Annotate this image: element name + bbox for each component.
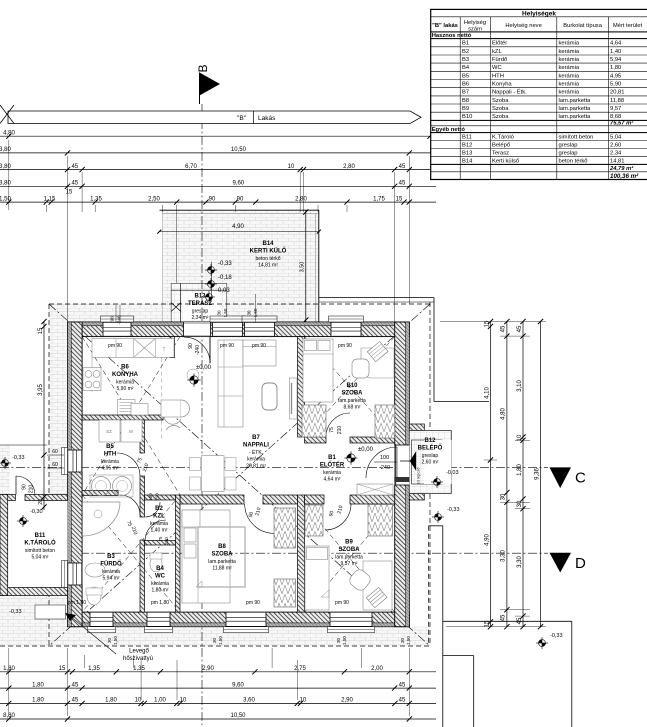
svg-text:B10: B10	[462, 114, 472, 120]
svg-text:45: 45	[399, 698, 406, 704]
svg-text:Szoba: Szoba	[492, 106, 509, 112]
svg-text:greslap: greslap	[559, 143, 578, 149]
svg-text:10: 10	[180, 698, 187, 704]
svg-text:simított beton: simított beton	[559, 135, 594, 141]
svg-text:K.TÁROLÓ: K.TÁROLÓ	[24, 539, 56, 547]
svg-text:30: 30	[247, 310, 252, 316]
svg-text:B9: B9	[345, 540, 353, 546]
svg-text:30: 30	[517, 500, 523, 507]
svg-text:kerámia: kerámia	[559, 41, 580, 47]
svg-text:Belépő: Belépő	[492, 143, 510, 149]
svg-text:10,50: 10,50	[230, 713, 246, 719]
svg-text:4,90: 4,90	[484, 534, 490, 546]
svg-text:hőszivattyú: hőszivattyú	[123, 656, 153, 662]
svg-text:3,30: 3,30	[517, 556, 523, 568]
svg-text:1,35: 1,35	[133, 666, 145, 672]
svg-text:WC: WC	[155, 574, 166, 580]
svg-text:Egyéb nettó: Egyéb nettó	[432, 127, 466, 133]
svg-text:45: 45	[399, 682, 406, 688]
svg-text:NAPPALI: NAPPALI	[243, 443, 269, 449]
svg-text:kerámia: kerámia	[150, 521, 168, 527]
svg-text:90: 90	[110, 316, 115, 322]
svg-text:5,94: 5,94	[610, 57, 622, 63]
svg-text:SZOBA: SZOBA	[339, 547, 361, 553]
svg-text:Levegő: Levegő	[129, 649, 149, 655]
svg-text:lam.parketta: lam.parketta	[559, 98, 592, 104]
svg-text:2,50: 2,50	[148, 196, 160, 202]
svg-text:Előtér: Előtér	[492, 41, 507, 47]
svg-text:3,60: 3,60	[243, 698, 255, 704]
svg-text:kerámia: kerámia	[559, 65, 580, 71]
svg-text:4,95 m²: 4,95 m²	[102, 466, 119, 472]
svg-text:±0,00: ±0,00	[196, 365, 212, 371]
svg-text:45: 45	[517, 617, 523, 624]
svg-text:Lakás: Lakás	[258, 115, 276, 122]
svg-text:8,80: 8,80	[3, 713, 15, 719]
svg-text:90: 90	[22, 484, 28, 490]
svg-text:3,80: 3,80	[0, 181, 11, 187]
svg-text:±0,00: ±0,00	[358, 447, 374, 453]
svg-text:1,50: 1,50	[406, 636, 411, 645]
svg-text:45: 45	[399, 181, 406, 187]
svg-text:9,57 m²: 9,57 m²	[341, 561, 358, 567]
svg-text:2,34: 2,34	[610, 150, 622, 156]
svg-text:45: 45	[71, 181, 78, 187]
svg-text:FÜRDŐ: FÜRDŐ	[100, 561, 122, 568]
svg-text:30: 30	[217, 310, 222, 316]
svg-text:B13: B13	[462, 150, 472, 156]
svg-text:-0,33: -0,33	[550, 633, 563, 639]
svg-text:4,80: 4,80	[3, 130, 15, 136]
svg-text:4,80: 4,80	[501, 408, 507, 420]
svg-text:B7: B7	[252, 435, 260, 441]
svg-text:75,57 m²: 75,57 m²	[610, 120, 634, 127]
svg-text:1,80: 1,80	[32, 698, 44, 704]
svg-text:Mért terület: Mért terület	[613, 23, 643, 29]
svg-text:SZOBA: SZOBA	[212, 552, 234, 558]
svg-text:-0,33: -0,33	[12, 455, 25, 461]
svg-text:1,50: 1,50	[223, 308, 228, 317]
svg-text:100: 100	[380, 455, 389, 461]
svg-text:szám: szám	[468, 27, 482, 33]
svg-text:90: 90	[209, 196, 216, 202]
svg-text:2,80: 2,80	[295, 196, 307, 202]
svg-text:lam.parketta: lam.parketta	[208, 559, 236, 565]
svg-text:1,40 m²: 1,40 m²	[151, 528, 168, 534]
svg-text:30: 30	[212, 638, 217, 644]
svg-text:"B": "B"	[237, 115, 247, 122]
svg-text:B11: B11	[35, 533, 46, 539]
svg-text:B6: B6	[462, 82, 469, 88]
svg-text:45: 45	[501, 614, 507, 621]
svg-text:11,88: 11,88	[610, 98, 624, 104]
svg-text:3,30: 3,30	[501, 550, 507, 562]
svg-text:lam.parketta: lam.parketta	[335, 555, 363, 561]
svg-text:6,70: 6,70	[185, 164, 197, 170]
svg-text:Kerti külső: Kerti külső	[492, 158, 519, 164]
svg-text:3,95: 3,95	[38, 384, 44, 396]
svg-text:kerámia: kerámia	[559, 73, 580, 79]
svg-text:B1: B1	[462, 41, 469, 47]
svg-text:B14: B14	[262, 241, 274, 247]
svg-text:-0,18: -0,18	[218, 275, 232, 281]
svg-text:90: 90	[237, 196, 244, 202]
svg-text:pm 90: pm 90	[338, 343, 352, 349]
svg-text:pm 90: pm 90	[108, 343, 122, 349]
svg-text:45: 45	[399, 164, 406, 170]
svg-text:45: 45	[72, 682, 79, 688]
svg-text:1,50: 1,50	[0, 196, 11, 202]
svg-text:Hasznos nettó: Hasznos nettó	[432, 33, 472, 39]
svg-text:kerámia: kerámia	[323, 470, 341, 476]
svg-text:B10: B10	[346, 383, 358, 389]
svg-text:1,00: 1,00	[154, 698, 166, 704]
svg-text:45: 45	[71, 164, 78, 170]
svg-text:B5: B5	[106, 444, 114, 450]
svg-text:kerámia: kerámia	[559, 49, 580, 55]
svg-text:8,68: 8,68	[610, 114, 621, 120]
svg-text:210: 210	[29, 485, 35, 494]
svg-text:9,36: 9,36	[534, 468, 540, 480]
svg-text:B4: B4	[156, 566, 164, 572]
svg-text:1,80: 1,80	[517, 464, 523, 476]
svg-text:lam.parketta: lam.parketta	[559, 106, 592, 112]
svg-text:B13: B13	[194, 294, 206, 300]
svg-text:45: 45	[517, 325, 523, 332]
svg-text:B1: B1	[328, 455, 336, 461]
svg-text:2,80: 2,80	[343, 164, 355, 170]
svg-text:pm 90: pm 90	[252, 343, 266, 349]
svg-text:30: 30	[107, 638, 112, 644]
svg-text:kerámia: kerámia	[559, 90, 580, 96]
svg-text:B12: B12	[424, 438, 436, 444]
svg-text:30: 30	[336, 638, 341, 644]
svg-text:pm 90: pm 90	[246, 600, 260, 606]
svg-text:45: 45	[72, 698, 79, 704]
svg-text:24,79 m²: 24,79 m²	[609, 165, 634, 172]
svg-text:ELŐTÉR: ELŐTÉR	[320, 461, 345, 469]
svg-text:K.Tároló: K.Tároló	[492, 135, 514, 141]
svg-text:-0,03: -0,03	[216, 288, 230, 294]
svg-text:1,35: 1,35	[90, 196, 102, 202]
svg-text:75: 75	[329, 427, 335, 433]
svg-text:210: 210	[337, 426, 343, 435]
svg-text:Szoba: Szoba	[492, 114, 509, 120]
svg-text:2,75: 2,75	[294, 666, 306, 672]
svg-text:14,81: 14,81	[610, 158, 625, 164]
svg-text:10 lépcső: 10 lépcső	[416, 467, 421, 485]
svg-text:KZL: KZL	[153, 514, 165, 520]
svg-text:5,94 m²: 5,94 m²	[103, 576, 120, 582]
svg-text:60: 60	[52, 449, 58, 455]
svg-text:B14: B14	[462, 158, 473, 164]
svg-text:KERTI KÜLŐ: KERTI KÜLŐ	[250, 248, 287, 255]
svg-text:1,15: 1,15	[44, 196, 56, 202]
svg-text:10,50: 10,50	[231, 147, 247, 153]
svg-text:B3: B3	[107, 554, 115, 560]
svg-text:1,80: 1,80	[3, 666, 15, 672]
svg-text:100: 100	[148, 493, 153, 501]
svg-text:1,40: 1,40	[610, 49, 621, 55]
svg-text:SZ: SZ	[106, 429, 112, 434]
svg-text:10: 10	[300, 698, 307, 704]
svg-text:TERASZ: TERASZ	[188, 301, 212, 307]
svg-text:3,80: 3,80	[0, 164, 11, 170]
svg-text:5,04: 5,04	[610, 135, 622, 141]
svg-text:1,80: 1,80	[610, 65, 621, 71]
svg-text:Helyiség: Helyiség	[464, 20, 486, 26]
svg-text:Helyiségek: Helyiségek	[522, 10, 556, 17]
svg-text:1,50: 1,50	[113, 636, 118, 645]
svg-text:15: 15	[396, 196, 403, 202]
svg-text:4,64 m²: 4,64 m²	[324, 477, 341, 483]
svg-text:B9: B9	[462, 106, 469, 112]
svg-text:Szoba: Szoba	[492, 98, 509, 104]
svg-text:20,81: 20,81	[610, 90, 625, 96]
svg-text:KONYHA: KONYHA	[112, 372, 139, 378]
svg-text:2,00: 2,00	[371, 666, 383, 672]
svg-text:Nappali - Étk.: Nappali - Étk.	[492, 89, 527, 96]
svg-text:-0,33: -0,33	[447, 507, 460, 513]
svg-text:75: 75	[158, 536, 163, 542]
svg-text:10: 10	[288, 164, 295, 170]
svg-text:5,90: 5,90	[610, 82, 621, 88]
svg-text:B: B	[196, 64, 210, 72]
svg-text:- ÉTK.: - ÉTK.	[249, 449, 263, 456]
svg-text:greslap: greslap	[422, 453, 439, 459]
svg-text:1,35: 1,35	[88, 666, 100, 672]
svg-text:greslap: greslap	[192, 309, 209, 315]
svg-text:100,36 m²: 100,36 m²	[610, 173, 639, 180]
svg-text:15: 15	[59, 666, 66, 672]
svg-text:"B" lakás: "B" lakás	[432, 23, 458, 29]
svg-text:B4: B4	[462, 65, 470, 71]
svg-text:20: 20	[38, 499, 44, 505]
svg-text:4,90: 4,90	[232, 224, 244, 230]
svg-text:1,50: 1,50	[218, 636, 223, 645]
svg-text:B7: B7	[462, 90, 469, 96]
svg-text:-240: -240	[117, 315, 122, 325]
svg-text:2,90: 2,90	[341, 698, 353, 704]
svg-text:B11: B11	[462, 135, 472, 141]
svg-text:simított beton: simított beton	[25, 548, 55, 554]
svg-text:kerámia: kerámia	[116, 380, 134, 386]
svg-text:kZL: kZL	[492, 49, 502, 55]
svg-text:B2: B2	[155, 506, 163, 512]
svg-text:B8: B8	[462, 98, 469, 104]
svg-text:lam.parketta: lam.parketta	[338, 398, 366, 404]
svg-text:-240: -240	[379, 465, 390, 471]
svg-text:B5: B5	[462, 73, 469, 79]
svg-text:kerámia: kerámia	[559, 82, 580, 88]
svg-text:Konyha: Konyha	[492, 82, 512, 88]
svg-text:2,60: 2,60	[610, 143, 621, 149]
svg-text:HTH: HTH	[104, 452, 116, 458]
svg-text:HTH: HTH	[492, 73, 504, 79]
svg-text:1,50: 1,50	[342, 636, 347, 645]
svg-text:45: 45	[501, 325, 507, 332]
svg-text:3,50: 3,50	[299, 262, 305, 273]
svg-text:pm 1,80: pm 1,80	[151, 600, 169, 606]
svg-text:SZOBA: SZOBA	[342, 391, 364, 397]
svg-text:2,34 m²: 2,34 m²	[192, 315, 209, 321]
svg-text:-0,33: -0,33	[218, 261, 232, 267]
svg-text:5,90 m²: 5,90 m²	[117, 386, 134, 392]
svg-text:5,04 m²: 5,04 m²	[32, 555, 49, 561]
svg-text:BELÉPŐ: BELÉPŐ	[418, 444, 443, 452]
svg-text:3,80: 3,80	[0, 147, 11, 153]
svg-text:B3: B3	[462, 57, 469, 63]
svg-text:30: 30	[400, 638, 405, 644]
svg-text:kerámia: kerámia	[102, 569, 120, 575]
svg-text:B2: B2	[462, 49, 469, 55]
svg-text:15: 15	[484, 320, 490, 327]
svg-text:beton térkő: beton térkő	[255, 256, 280, 262]
svg-text:pm 90: pm 90	[220, 343, 234, 349]
svg-text:kerámia: kerámia	[247, 457, 265, 463]
svg-text:1,80: 1,80	[105, 698, 117, 704]
svg-text:T: T	[162, 347, 165, 353]
svg-text:kerámia: kerámia	[151, 581, 169, 587]
svg-text:2,90: 2,90	[202, 666, 214, 672]
svg-text:210: 210	[155, 493, 160, 501]
svg-text:D: D	[575, 555, 586, 572]
svg-text:1,80: 1,80	[32, 682, 44, 688]
svg-text:15: 15	[66, 190, 73, 196]
svg-text:B6: B6	[121, 365, 129, 371]
svg-text:15: 15	[38, 327, 44, 334]
svg-text:3,10: 3,10	[517, 380, 523, 392]
svg-text:20,81 m²: 20,81 m²	[246, 464, 266, 470]
svg-text:2,60 m²: 2,60 m²	[422, 460, 439, 466]
svg-text:beton térkő: beton térkő	[559, 158, 588, 164]
svg-text:lam.parketta: lam.parketta	[559, 114, 592, 120]
svg-text:-0,03: -0,03	[446, 470, 459, 476]
svg-text:-0,30: -0,30	[30, 509, 43, 515]
svg-text:greslap: greslap	[559, 150, 578, 156]
svg-text:-240: -240	[195, 345, 201, 355]
svg-text:4,10: 4,10	[484, 387, 490, 399]
svg-text:15: 15	[484, 620, 490, 627]
svg-text:kerámia: kerámia	[101, 459, 119, 465]
svg-text:kerámia: kerámia	[559, 57, 580, 63]
svg-text:1,75: 1,75	[373, 196, 385, 202]
svg-text:M: M	[129, 429, 133, 434]
svg-text:B12: B12	[462, 143, 472, 149]
svg-text:30: 30	[501, 493, 507, 500]
svg-text:4,95: 4,95	[610, 73, 621, 79]
svg-text:60: 60	[52, 462, 58, 468]
svg-text:C: C	[575, 470, 586, 487]
svg-text:Helyiség neve: Helyiség neve	[505, 23, 541, 29]
svg-text:-0,33: -0,33	[9, 609, 22, 615]
svg-text:11,88 m²: 11,88 m²	[212, 566, 232, 572]
svg-text:B8: B8	[218, 544, 226, 550]
svg-text:pm 1,80: pm 1,80	[68, 600, 86, 606]
svg-text:8,68 m²: 8,68 m²	[344, 405, 361, 411]
svg-text:4,64: 4,64	[610, 41, 622, 47]
svg-text:10: 10	[135, 698, 142, 704]
svg-text:Burkolat típusa: Burkolat típusa	[563, 23, 602, 29]
svg-text:9,57: 9,57	[610, 106, 621, 112]
svg-text:9,60: 9,60	[232, 181, 244, 187]
svg-text:90: 90	[188, 343, 194, 349]
svg-text:pm 90: pm 90	[335, 600, 349, 606]
svg-text:14,81 m²: 14,81 m²	[258, 263, 278, 269]
svg-text:Terasz: Terasz	[492, 150, 509, 156]
svg-text:WC: WC	[492, 65, 502, 71]
svg-text:210: 210	[164, 537, 169, 545]
svg-text:Fürdő: Fürdő	[492, 57, 507, 63]
svg-text:1,80 m²: 1,80 m²	[152, 588, 169, 594]
svg-text:9,60: 9,60	[232, 682, 244, 688]
